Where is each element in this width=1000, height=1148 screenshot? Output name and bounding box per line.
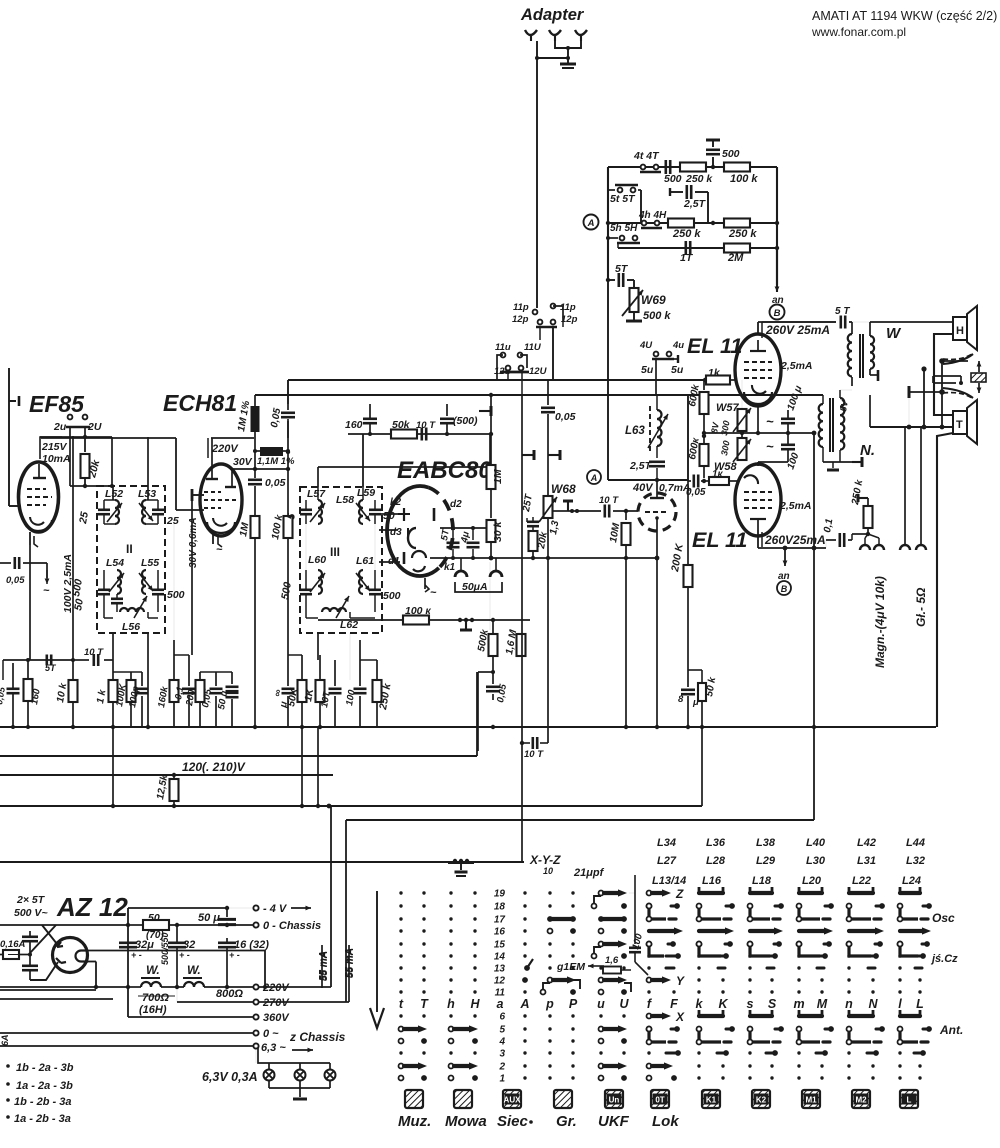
resistor 100K xyxy=(127,680,136,702)
capacitor 0,1 row xyxy=(188,655,190,686)
svg-text:500: 500 xyxy=(722,148,740,160)
bus y393 xyxy=(255,394,823,396)
grid stub ECH81 xyxy=(192,494,204,496)
svg-text:k1: k1 xyxy=(444,562,456,573)
svg-text:1,1M 1%: 1,1M 1% xyxy=(257,456,295,467)
svg-text:5T: 5T xyxy=(45,663,57,673)
coil L63 xyxy=(657,410,662,446)
wire eye down xyxy=(656,531,658,558)
svg-text:0 - Chassis: 0 - Chassis xyxy=(263,920,321,932)
wire IF3 d-line xyxy=(305,524,307,570)
wire Y link xyxy=(647,975,649,980)
svg-text:~: ~ xyxy=(430,587,437,599)
meter 50uA xyxy=(460,558,462,571)
svg-text:L: L xyxy=(916,997,924,1011)
transformer N right xyxy=(840,398,844,450)
bus y380 xyxy=(288,379,707,381)
svg-text:11p: 11p xyxy=(513,302,529,313)
switch matrix column u/U xyxy=(592,889,632,1081)
svg-text:500 k: 500 k xyxy=(643,310,671,322)
capacitor 25T xyxy=(526,518,528,522)
terminal 220V xyxy=(253,984,258,989)
wire jacks1 up xyxy=(864,538,866,545)
svg-text:500: 500 xyxy=(664,173,682,185)
svg-text:0T: 0T xyxy=(655,1096,664,1105)
svg-text:L13/14: L13/14 xyxy=(652,875,686,887)
label combo 3 xyxy=(6,1098,10,1102)
resistor 160 xyxy=(27,660,29,678)
svg-text:40V: 40V xyxy=(632,482,654,494)
capacitor 0,05 500k xyxy=(492,672,494,684)
resistor 1,1M 1% (precision) xyxy=(260,447,283,456)
svg-text:L27: L27 xyxy=(657,855,677,867)
transformer W core xyxy=(859,334,861,378)
svg-text:T: T xyxy=(956,419,963,431)
svg-text:u: u xyxy=(597,997,605,1011)
lamp wires xyxy=(255,1049,257,1063)
capacitor 0,05 ech top xyxy=(287,404,289,410)
resistor 1M eabc xyxy=(490,395,492,465)
svg-text:B: B xyxy=(781,584,788,594)
capacitor 4u eabc xyxy=(472,528,474,540)
svg-text:L63: L63 xyxy=(625,425,645,437)
svg-text:L20: L20 xyxy=(802,875,822,887)
svg-text:5u: 5u xyxy=(641,364,654,376)
svg-text:L55: L55 xyxy=(141,557,159,569)
svg-text:X-Y-Z: X-Y-Z xyxy=(529,853,561,867)
node A circle 2 xyxy=(587,470,601,484)
capacitor 32 xyxy=(168,941,186,944)
label combo 2 xyxy=(6,1082,10,1086)
svg-text:12U: 12U xyxy=(529,366,548,377)
svg-text:0,05: 0,05 xyxy=(6,575,25,586)
wire W top link xyxy=(852,321,948,323)
svg-text:AMATI AT 1194 WKW (część 2/2): AMATI AT 1194 WKW (część 2/2) xyxy=(812,9,997,23)
svg-text:+ -: + - xyxy=(179,950,190,960)
wire d3 xyxy=(379,529,398,531)
svg-text:6,3V 0,3A: 6,3V 0,3A xyxy=(202,1070,258,1084)
svg-text:+ -: + - xyxy=(229,950,240,960)
svg-text:10 T: 10 T xyxy=(416,420,436,431)
resistor 20k w68 xyxy=(529,531,538,551)
svg-text:10 T: 10 T xyxy=(84,647,104,658)
resistor 600k b xyxy=(703,436,705,444)
capacitor (500) xyxy=(446,404,448,416)
coil L56 xyxy=(120,608,144,612)
riser 220V xyxy=(330,806,332,987)
svg-text:1a - 2b - 3a: 1a - 2b - 3a xyxy=(14,1113,71,1125)
resistor 160k xyxy=(173,640,175,680)
capacitor 500 shunt xyxy=(712,157,714,167)
ground bus y727 xyxy=(0,726,936,728)
svg-text:5h 5H: 5h 5H xyxy=(610,223,638,234)
tweeter network xyxy=(943,354,973,364)
wire H feed xyxy=(952,321,954,323)
lamp return xyxy=(268,1080,270,1088)
wire 478 riser xyxy=(478,671,493,673)
svg-text:5 T: 5 T xyxy=(835,306,850,317)
wire jacks2 up xyxy=(904,427,906,545)
IF transformer III box xyxy=(300,487,382,633)
svg-text:250 k: 250 k xyxy=(685,173,713,185)
wire mid 433 xyxy=(704,432,814,434)
capacitor 500 L55 xyxy=(152,588,164,591)
svg-text:M2: M2 xyxy=(855,1096,867,1105)
wire 1K drop xyxy=(317,727,319,806)
wire 100u join xyxy=(787,458,789,462)
svg-text:1a - 2a - 3b: 1a - 2a - 3b xyxy=(16,1080,73,1092)
svg-text:1M: 1M xyxy=(492,469,504,484)
svg-text:L56: L56 xyxy=(122,621,140,633)
terminal 360V xyxy=(253,1014,258,1019)
svg-text:L30: L30 xyxy=(806,855,826,867)
wire 1M node xyxy=(254,432,256,469)
coil L54 xyxy=(117,570,121,594)
svg-text:Un: Un xyxy=(609,1096,620,1105)
resistor 200K xyxy=(684,565,693,587)
svg-text:5t 5T: 5t 5T xyxy=(610,193,636,205)
resistor 500k xyxy=(489,562,491,630)
svg-text:15: 15 xyxy=(494,940,506,951)
wire 2U node xyxy=(40,436,112,438)
wire eye down2 xyxy=(656,558,658,727)
svg-text:21μpf: 21μpf xyxy=(573,867,605,879)
svg-text:www.fonar.com.pl: www.fonar.com.pl xyxy=(811,25,906,39)
resistor 600k a xyxy=(703,380,705,390)
svg-text:12p: 12p xyxy=(512,314,529,325)
svg-text:2,5T: 2,5T xyxy=(629,460,653,472)
svg-text:220V: 220V xyxy=(262,982,290,994)
svg-text:L34: L34 xyxy=(657,837,676,849)
svg-text:4U: 4U xyxy=(639,340,653,351)
switch matrix column f/F xyxy=(647,889,684,1081)
svg-text:1: 1 xyxy=(499,1074,505,1085)
tbar tweeter xyxy=(910,391,942,393)
resistor 10M xyxy=(624,509,628,513)
capacitor 500 L54 xyxy=(98,588,110,591)
svg-text:1b - 2b - 3a: 1b - 2b - 3a xyxy=(14,1096,71,1108)
svg-text:n: n xyxy=(845,997,853,1011)
svg-text:p: p xyxy=(545,997,554,1011)
wire matrix 100 riser xyxy=(634,875,636,893)
terminal 0-Chassis xyxy=(253,922,258,927)
wire filter left xyxy=(127,908,129,1017)
resistor 250k mid2 xyxy=(724,219,750,228)
coil L53 xyxy=(142,500,146,524)
svg-text:A: A xyxy=(590,473,598,483)
svg-text:2M: 2M xyxy=(727,252,744,264)
ground W69 xyxy=(633,312,635,320)
svg-text:6: 6 xyxy=(499,1012,505,1023)
tbar top eabc xyxy=(479,410,491,412)
svg-text:Lok: Lok xyxy=(652,1113,679,1130)
transformer W primary xyxy=(848,334,852,377)
svg-text:L29: L29 xyxy=(756,855,776,867)
svg-text:W69: W69 xyxy=(641,293,666,307)
capacitor 500 L61 xyxy=(369,588,381,591)
svg-text:800Ω: 800Ω xyxy=(216,988,243,1000)
svg-text:250 k: 250 k xyxy=(728,228,757,240)
capacitor 10T w68 xyxy=(603,505,606,518)
IF transformer II box xyxy=(97,486,165,633)
grid cap EF85 xyxy=(8,368,10,402)
resistor 50k out xyxy=(688,669,702,671)
triple node xyxy=(458,618,462,622)
wire d2 line xyxy=(440,527,491,529)
svg-text:13: 13 xyxy=(494,964,506,975)
svg-text:19: 19 xyxy=(494,889,506,900)
svg-text:K2: K2 xyxy=(756,1096,767,1105)
svg-text:220V: 220V xyxy=(211,443,239,455)
rail y806 xyxy=(0,805,702,807)
svg-text:M1: M1 xyxy=(805,1096,817,1105)
svg-text:260V25mA: 260V25mA xyxy=(764,533,826,547)
labels L13-L24 xyxy=(652,875,921,887)
capacitor 0,05 el11 xyxy=(688,480,691,482)
wire EF85 grid left xyxy=(8,402,10,506)
svg-text:3: 3 xyxy=(499,1049,505,1060)
wire 113 drop xyxy=(112,727,114,806)
label combo 4 xyxy=(6,1115,10,1119)
svg-text:AZ 12: AZ 12 xyxy=(56,892,128,922)
svg-text:Adapter: Adapter xyxy=(520,6,585,24)
coil L57 xyxy=(318,500,322,524)
svg-text:A: A xyxy=(519,997,529,1011)
svg-text:5u: 5u xyxy=(671,364,684,376)
svg-text:260V 25mA: 260V 25mA xyxy=(765,323,830,337)
capacitor 2,5T L63 xyxy=(656,446,658,458)
svg-text:Gr.: Gr. xyxy=(556,1113,577,1130)
svg-text:W.: W. xyxy=(187,963,201,977)
svg-text:d2: d2 xyxy=(450,499,462,510)
capacitor 25 L53 xyxy=(152,508,164,511)
svg-text:g1EM: g1EM xyxy=(556,961,585,973)
capacitor az left a xyxy=(22,935,38,938)
capacitor 32u xyxy=(119,941,137,944)
capacitor 10T IF2 xyxy=(104,659,113,661)
svg-text:L52: L52 xyxy=(105,488,123,500)
rail y820 xyxy=(346,819,814,821)
svg-text:H: H xyxy=(470,997,480,1011)
wire 12p lead down xyxy=(539,327,541,340)
svg-text:55 mA: 55 mA xyxy=(318,951,329,981)
lamp 1 xyxy=(264,1070,275,1081)
svg-text:500/550: 500/550 xyxy=(160,932,170,965)
svg-text:EL 11: EL 11 xyxy=(692,528,747,552)
resistor 2M xyxy=(724,244,750,253)
speaker T xyxy=(953,411,967,434)
svg-text:L16: L16 xyxy=(702,875,722,887)
svg-text:2,5mA: 2,5mA xyxy=(780,360,813,372)
svg-text:L59: L59 xyxy=(357,487,375,499)
resistor 10k xyxy=(72,660,74,680)
svg-text:N: N xyxy=(868,997,878,1011)
svg-text:L58: L58 xyxy=(336,494,354,506)
svg-text:50μA: 50μA xyxy=(462,581,488,593)
capacitor 5T eabc xyxy=(452,528,454,540)
coil L59 xyxy=(359,500,363,524)
svg-text:270V: 270V xyxy=(262,997,290,1009)
svg-text:L40: L40 xyxy=(806,837,826,849)
lamp 3 xyxy=(325,1070,336,1081)
wire an B bottom xyxy=(784,548,786,566)
wire IF3 top leads xyxy=(317,487,319,500)
wire adapter join xyxy=(555,41,581,48)
svg-text:II: II xyxy=(126,542,133,556)
wire 10M down xyxy=(625,558,627,727)
svg-text:EL 11: EL 11 xyxy=(687,334,742,358)
transformer N core xyxy=(829,398,831,452)
svg-text:360V: 360V xyxy=(263,1012,290,1024)
resistor 1k el11a xyxy=(680,379,705,381)
coil L60 xyxy=(318,570,322,594)
svg-text:P: P xyxy=(569,997,578,1011)
rail y775 + label 120V xyxy=(0,774,333,776)
svg-text:L31: L31 xyxy=(857,855,876,867)
svg-text:h: h xyxy=(447,997,455,1011)
svg-text:a: a xyxy=(497,997,504,1011)
svg-text:0 ~: 0 ~ xyxy=(263,1028,279,1040)
resistor 30k xyxy=(487,520,496,542)
L63 box xyxy=(607,393,609,480)
wire W primary bottom xyxy=(851,386,853,395)
svg-text:50: 50 xyxy=(72,598,86,612)
arrow down left xyxy=(376,891,378,1012)
svg-text:10mA: 10mA xyxy=(42,453,71,465)
svg-text:160: 160 xyxy=(345,419,363,431)
terminal -4V xyxy=(253,905,258,910)
svg-text:B: B xyxy=(774,308,781,319)
svg-text:(500): (500) xyxy=(453,415,478,427)
resistor 20k xyxy=(84,437,86,452)
svg-text:100 к: 100 к xyxy=(405,605,431,617)
svg-text:A: A xyxy=(587,218,595,229)
wire tone box top xyxy=(608,166,777,168)
svg-text:30V 0,6mA: 30V 0,6mA xyxy=(188,517,199,568)
wire anode top to W xyxy=(851,322,853,336)
switch matrix column m/M xyxy=(797,887,834,1080)
rail y862 xyxy=(0,861,524,863)
wire v688 xyxy=(687,480,689,567)
svg-text:S: S xyxy=(768,997,777,1011)
svg-text:25: 25 xyxy=(77,511,91,526)
svg-text:L18: L18 xyxy=(752,875,772,887)
labels L27-L32 xyxy=(657,855,925,867)
svg-text:Osc: Osc xyxy=(932,911,955,925)
capacitor 50 L59 xyxy=(369,508,381,511)
svg-text:500: 500 xyxy=(167,589,185,601)
wire w68 wiper row xyxy=(552,510,568,512)
svg-text:1k: 1k xyxy=(708,367,721,379)
svg-text:III: III xyxy=(330,545,340,559)
wire 50K drop xyxy=(301,727,303,806)
potentiometer W69 xyxy=(633,280,635,288)
capacitor 50u xyxy=(231,672,233,684)
capacitor 2,5T xyxy=(677,191,683,193)
capacitor 100u a xyxy=(781,417,795,420)
svg-text:6A: 6A xyxy=(0,1034,10,1046)
wire to an B xyxy=(776,248,778,292)
svg-text:K1: K1 xyxy=(706,1096,717,1105)
switch matrix column p/P xyxy=(541,891,581,1079)
riser 702 xyxy=(701,727,703,806)
svg-text:X: X xyxy=(675,1010,685,1024)
svg-text:1b - 2a - 3b: 1b - 2a - 3b xyxy=(16,1062,74,1074)
capacitor 100u b xyxy=(781,443,795,446)
fuse 0,16A xyxy=(3,950,19,959)
riser 270V xyxy=(345,820,347,1002)
tube EL11 lower xyxy=(735,464,781,536)
band keys hatched xyxy=(405,1090,918,1108)
capacitor 16(32) xyxy=(218,941,236,944)
svg-text:L36: L36 xyxy=(706,837,726,849)
switch matrix column l/L xyxy=(898,887,932,1080)
svg-text:l: l xyxy=(898,997,902,1011)
svg-text:4μ: 4μ xyxy=(459,530,472,544)
svg-text:m: m xyxy=(793,997,804,1011)
svg-text:Gł.- 5Ω: Gł.- 5Ω xyxy=(914,587,928,627)
resistor 250k mid xyxy=(668,219,694,228)
terminal 6,3 xyxy=(253,1043,258,1048)
wire EF85 pins xyxy=(29,545,31,660)
svg-text:K: K xyxy=(718,997,728,1011)
svg-text:F: F xyxy=(670,997,678,1011)
wire N bottom xyxy=(822,455,824,462)
matrix letters row xyxy=(399,997,924,1011)
transformer N left xyxy=(819,404,823,447)
EABC80 internals xyxy=(403,508,405,521)
wire tone box left xyxy=(607,167,609,280)
rectifier AZ12 xyxy=(53,938,88,973)
svg-text:10 T: 10 T xyxy=(599,495,619,506)
wire N right top xyxy=(840,389,852,391)
svg-text:700Ω: 700Ω xyxy=(142,992,169,1004)
box 220V xyxy=(207,438,209,458)
svg-text:EABC80: EABC80 xyxy=(397,457,492,484)
coil L55 xyxy=(142,570,146,594)
jack pair 1 xyxy=(860,545,870,550)
svg-text:Mowa: Mowa xyxy=(445,1113,487,1130)
svg-text:6,3 ~: 6,3 ~ xyxy=(261,1042,286,1054)
svg-text:~: ~ xyxy=(766,414,774,429)
wire w68 col down xyxy=(547,558,549,743)
svg-text:4: 4 xyxy=(498,1037,505,1048)
EABC80 cathode sign xyxy=(424,578,426,589)
resistor 1K b xyxy=(319,655,321,680)
svg-text:L38: L38 xyxy=(756,837,776,849)
tbar pair mid xyxy=(522,454,534,456)
svg-text:L42: L42 xyxy=(857,837,876,849)
wire tone box right xyxy=(776,167,778,285)
svg-text:2× 5T: 2× 5T xyxy=(16,894,46,906)
capacitor 50 L54 xyxy=(111,597,123,600)
capacitor inf u xyxy=(282,687,295,690)
resistor 1k IF xyxy=(112,660,114,680)
svg-text:L: L xyxy=(907,1096,912,1105)
coil L62 xyxy=(322,608,346,612)
wire T speaker link xyxy=(870,426,953,428)
svg-text:1T: 1T xyxy=(680,252,694,264)
svg-text:25: 25 xyxy=(166,515,179,527)
wire tone left lower xyxy=(607,280,609,393)
svg-text:50: 50 xyxy=(148,912,160,924)
capacitor 100 b xyxy=(359,640,361,686)
capacitor 100 matrix xyxy=(634,893,636,944)
svg-text:~: ~ xyxy=(43,585,50,597)
svg-text:500: 500 xyxy=(383,590,401,602)
svg-text:U: U xyxy=(619,997,629,1011)
svg-text:500 V~: 500 V~ xyxy=(14,907,48,919)
